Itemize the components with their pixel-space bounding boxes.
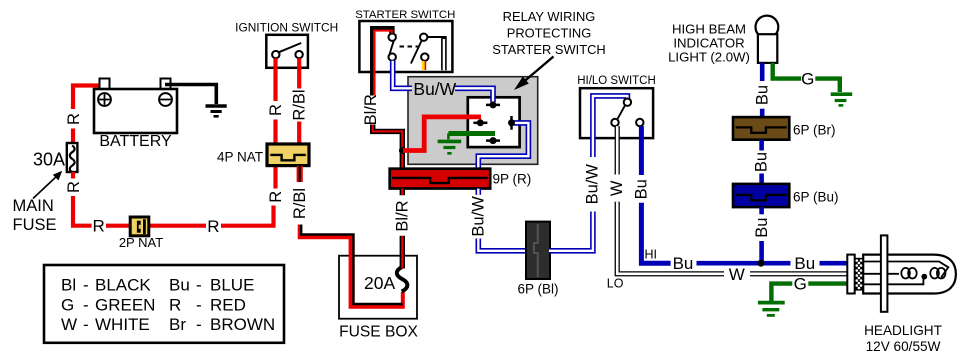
fuse box xyxy=(339,256,417,319)
label W horizontal xyxy=(729,265,745,284)
svg-text:R/Bl: R/Bl xyxy=(291,89,309,120)
label R xyxy=(207,217,219,236)
wire Bu/W 9P to 6P (Bl) xyxy=(478,189,527,251)
wire R main fuse to 2P NAT xyxy=(73,172,132,226)
ground headlight xyxy=(758,303,785,316)
svg-text:R: R xyxy=(65,181,83,193)
headlight filament coils xyxy=(901,268,945,279)
svg-text:6P (Br): 6P (Br) xyxy=(793,123,836,138)
battery B1 xyxy=(94,79,177,151)
svg-text:GREEN: GREEN xyxy=(95,295,155,314)
connector 9P (R) xyxy=(390,169,491,189)
svg-text:G: G xyxy=(794,275,807,294)
label Bu xyxy=(673,254,694,273)
wire Bu 6P (Br) to 6P (Bu) xyxy=(759,140,764,184)
svg-text:Br: Br xyxy=(169,315,186,334)
relay housing gray box xyxy=(408,77,538,165)
svg-text:Bl: Bl xyxy=(61,276,76,295)
svg-text:30A: 30A xyxy=(33,150,65,170)
high beam indicator lamp xyxy=(756,16,779,63)
headlight filament junction dot xyxy=(921,274,927,280)
label 20A xyxy=(364,273,395,293)
svg-text:W: W xyxy=(61,315,77,334)
svg-text:INDICATOR: INDICATOR xyxy=(673,35,744,50)
wire R 2P NAT to junction corner xyxy=(147,166,276,226)
svg-text:-: - xyxy=(83,295,89,314)
svg-text:R: R xyxy=(207,217,219,236)
label RELAY WIRING PROTECTING STARTER SWITCH xyxy=(492,9,605,57)
headlight mounting tab xyxy=(881,235,888,311)
wire R/Bl 4P NAT to fuse box xyxy=(300,166,403,307)
label R below fuse xyxy=(65,181,83,193)
legend text xyxy=(61,276,275,335)
svg-text:G: G xyxy=(61,295,74,314)
svg-text:4P NAT: 4P NAT xyxy=(217,150,263,165)
svg-text:20A: 20A xyxy=(364,273,395,293)
svg-text:Bu: Bu xyxy=(753,152,771,172)
svg-text:G: G xyxy=(801,70,814,89)
svg-text:-: - xyxy=(83,315,89,334)
label 30A xyxy=(33,150,65,170)
label FUSE BOX xyxy=(339,324,418,341)
svg-text:LIGHT (2.0W): LIGHT (2.0W) xyxy=(668,49,750,64)
connector 6P (Bl) xyxy=(526,222,550,279)
wire R ignition to 4P NAT xyxy=(273,58,277,146)
ground battery xyxy=(206,106,227,116)
svg-text:BROWN: BROWN xyxy=(210,315,275,334)
wire Bu hi/lo HI to headlight xyxy=(641,126,847,263)
label G xyxy=(801,70,814,89)
svg-text:Bu: Bu xyxy=(633,179,651,199)
label Bu/W xyxy=(470,196,488,237)
svg-text:R: R xyxy=(267,191,285,203)
arrow main fuse xyxy=(33,171,62,199)
svg-text:MAIN: MAIN xyxy=(13,197,54,215)
svg-text:W: W xyxy=(608,180,626,196)
wire Bu/W 6P (Bl) to HI/LO switch xyxy=(549,96,627,251)
svg-text:-: - xyxy=(83,276,89,295)
svg-text:HI: HI xyxy=(645,248,658,262)
svg-text:RED: RED xyxy=(210,295,246,314)
svg-text:Bu: Bu xyxy=(673,254,694,273)
svg-text:12V 60/55W: 12V 60/55W xyxy=(866,339,941,354)
label STARTER SWITCH xyxy=(355,9,455,21)
svg-text:Bu: Bu xyxy=(794,254,815,273)
svg-text:BATTERY: BATTERY xyxy=(99,133,172,150)
svg-text:HEADLIGHT: HEADLIGHT xyxy=(864,323,942,338)
hi/lo switch body xyxy=(580,88,653,138)
svg-text:6P (Bl): 6P (Bl) xyxy=(517,282,558,297)
svg-text:Bu: Bu xyxy=(169,276,190,295)
label 6P (Bl) xyxy=(517,282,558,297)
label 6P (Bu) xyxy=(793,189,839,204)
wire Bl battery negative to ground xyxy=(165,85,216,105)
label Bu/W relay xyxy=(413,79,456,99)
label R xyxy=(92,217,104,236)
label R riser xyxy=(267,191,285,203)
label Bu xyxy=(753,218,771,238)
connector 6P (Bu) xyxy=(733,184,789,207)
label Bu/W xyxy=(584,164,602,205)
hi/lo switch S3 contacts xyxy=(611,99,643,127)
relay U1 pins xyxy=(473,101,515,144)
svg-text:2P NAT: 2P NAT xyxy=(119,235,163,250)
junction Bu headlight xyxy=(757,260,764,267)
wire W hi/lo to headlight xyxy=(617,126,847,274)
wire W starter top right xyxy=(428,36,444,70)
label HIGH BEAM INDICATOR LIGHT xyxy=(668,21,750,64)
label R/Bl xyxy=(291,188,309,219)
headlight connector plug xyxy=(847,255,863,294)
wire Bu lamp to 6P (Br) xyxy=(760,63,765,118)
svg-text:Bl/R: Bl/R xyxy=(394,200,412,231)
label Bu xyxy=(753,152,771,172)
svg-text:BLACK: BLACK xyxy=(95,276,151,295)
wire Bu/W starter to relay xyxy=(393,61,493,102)
svg-text:WHITE: WHITE xyxy=(95,315,150,334)
label HEADLIGHT 12V 60/55W xyxy=(864,323,942,354)
label MAIN FUSE xyxy=(13,197,57,234)
svg-text:-: - xyxy=(196,315,202,334)
svg-text:STARTER SWITCH: STARTER SWITCH xyxy=(492,42,605,57)
svg-text:-: - xyxy=(196,276,202,295)
svg-text:Bu: Bu xyxy=(753,85,771,105)
svg-text:R/Bl: R/Bl xyxy=(291,188,309,219)
label LO xyxy=(607,277,624,291)
label Bu xyxy=(794,254,815,273)
svg-text:FUSE: FUSE xyxy=(13,216,57,234)
label HI xyxy=(645,248,658,262)
wire G headlight to ground xyxy=(771,284,847,301)
svg-text:R: R xyxy=(169,295,181,314)
connector 4P NAT xyxy=(267,144,309,166)
label 2P NAT xyxy=(119,235,163,250)
svg-text:W: W xyxy=(729,265,745,284)
svg-text:HIGH BEAM: HIGH BEAM xyxy=(672,21,746,36)
wire Bu/W relay to 9P xyxy=(478,123,528,170)
label IGNITION SWITCH xyxy=(235,21,338,35)
svg-text:IGNITION SWITCH: IGNITION SWITCH xyxy=(235,21,338,35)
arrow relay pointer xyxy=(514,57,554,91)
svg-text:-: - xyxy=(196,295,202,314)
wire R relay feed xyxy=(403,117,481,151)
label G xyxy=(794,275,807,294)
connector 2P NAT xyxy=(130,217,149,236)
svg-text:HI/LO SWITCH: HI/LO SWITCH xyxy=(577,75,656,87)
connector 6P (Br) xyxy=(733,117,789,140)
headlight bulb xyxy=(863,255,956,294)
svg-text:6P (Bu): 6P (Bu) xyxy=(793,189,839,204)
svg-text:R: R xyxy=(267,104,285,116)
svg-text:R: R xyxy=(65,113,83,125)
svg-text:BLUE: BLUE xyxy=(210,276,254,295)
svg-text:STARTER SWITCH: STARTER SWITCH xyxy=(355,9,455,21)
svg-text:FUSE BOX: FUSE BOX xyxy=(339,324,418,341)
svg-text:RELAY WIRING: RELAY WIRING xyxy=(503,9,596,24)
relay body xyxy=(468,97,520,147)
svg-text:Bu/W: Bu/W xyxy=(584,164,602,205)
svg-text:R: R xyxy=(92,217,104,236)
svg-text:LO: LO xyxy=(607,277,624,291)
label Bu xyxy=(753,85,771,105)
label Bu xyxy=(633,179,651,199)
label Bl/R xyxy=(394,200,412,231)
wire G relay to ground xyxy=(448,134,495,140)
svg-text:Bu/W: Bu/W xyxy=(413,79,456,99)
label R battery wire xyxy=(65,113,83,125)
label R xyxy=(267,104,285,116)
wire R battery to main fuse xyxy=(73,86,106,144)
wire G lamp to ground xyxy=(773,63,840,92)
ignition switch S1 xyxy=(266,35,308,68)
label HI/LO SWITCH xyxy=(577,75,656,87)
label 9P (R) xyxy=(493,172,532,187)
wire R/Bl ignition to 4P NAT xyxy=(297,58,301,146)
wire Bu 6P (Bu) to junction xyxy=(759,207,764,263)
legend box xyxy=(44,265,284,343)
junction Bl/R relay feed xyxy=(399,147,406,154)
svg-text:PROTECTING: PROTECTING xyxy=(507,25,592,40)
starter switch S2 xyxy=(359,21,452,72)
wire Y/R starter bottom right stub xyxy=(423,61,425,70)
wire Bl/R 9P to 20A fuse xyxy=(400,189,405,269)
label W xyxy=(608,180,626,196)
label 4P NAT xyxy=(217,150,263,165)
wire Bl/R starter switch xyxy=(373,29,403,170)
svg-text:Bu: Bu xyxy=(753,218,771,238)
ground relay green xyxy=(438,141,462,153)
ground high beam xyxy=(831,94,853,105)
fuse 20A squiggle xyxy=(397,267,408,292)
svg-text:Bl/R: Bl/R xyxy=(362,94,380,125)
label R/Bl xyxy=(291,89,309,120)
main fuse 30A xyxy=(67,143,78,172)
label Bl/R xyxy=(362,94,380,125)
label 6P (Br) xyxy=(793,123,836,138)
svg-text:9P (R): 9P (R) xyxy=(493,172,532,187)
svg-text:Bu/W: Bu/W xyxy=(470,196,488,237)
